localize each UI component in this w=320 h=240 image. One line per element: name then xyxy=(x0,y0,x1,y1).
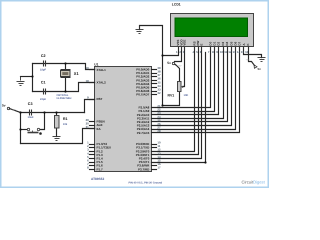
oscillator top rail wire xyxy=(33,64,95,70)
wire VDD pin to 5V xyxy=(175,47,182,62)
svg-text:22pF: 22pF xyxy=(40,69,46,72)
svg-text:16: 16 xyxy=(245,50,249,54)
svg-text:10K: 10K xyxy=(184,94,189,97)
svg-text:XTAL1: XTAL1 xyxy=(97,68,107,72)
LCD pin stubs xyxy=(179,47,249,51)
junction dot button left xyxy=(19,128,21,130)
oscillator bottom rail wire xyxy=(33,83,95,92)
junction dot button branch xyxy=(43,111,45,113)
pin EA stub xyxy=(90,128,95,130)
svg-text:PIN 40 VCC, PIN 20 Ground: PIN 40 VCC, PIN 20 Ground xyxy=(129,181,163,184)
wire P3.2 to LCD RS xyxy=(152,47,195,152)
svg-text:C1: C1 xyxy=(41,81,46,85)
svg-text:P2.7/A15: P2.7/A15 xyxy=(137,131,150,135)
ground symbol R1 xyxy=(53,137,61,141)
svg-text:12: 12 xyxy=(228,50,232,54)
LCD pin name labels xyxy=(176,38,250,45)
wire P2.1 to LCD D1 xyxy=(152,47,215,112)
push button reset xyxy=(27,128,39,132)
svg-text:10: 10 xyxy=(220,50,224,54)
LCD1 display body xyxy=(171,14,254,47)
push button knob dot xyxy=(39,132,42,135)
svg-text:P0.7/AD7: P0.7/AD7 xyxy=(136,93,149,97)
power symbol 5V reset xyxy=(2,104,16,112)
wire RV1 bottom to ground rail xyxy=(163,92,180,106)
svg-text:13: 13 xyxy=(233,50,237,54)
power symbol 5V LCD pin16 xyxy=(246,58,262,71)
potentiometer RV1 xyxy=(178,82,184,92)
svg-text:11: 11 xyxy=(224,50,227,54)
EA wire xyxy=(21,129,95,144)
left 5V rail wire down xyxy=(20,113,22,144)
crystal top lead wire xyxy=(65,64,67,70)
svg-text:P3.7/RD: P3.7/RD xyxy=(138,167,150,171)
junction dot osc ground xyxy=(31,75,33,77)
resistor R1 xyxy=(55,116,60,129)
wire P2.4 to LCD D4 xyxy=(152,47,228,122)
svg-text:22pF: 22pF xyxy=(40,98,46,101)
oscillator left rail wire xyxy=(32,64,34,92)
junction dot RV1 ground xyxy=(161,104,163,106)
svg-text:U1: U1 xyxy=(94,63,98,67)
pins P3.0,P3.1,P3.6,P3.7 stubs xyxy=(152,145,157,170)
R1 bottom lead wire xyxy=(56,129,58,137)
pin RST stub xyxy=(90,99,95,101)
svg-text:+5V: +5V xyxy=(246,58,250,61)
button right lead wire xyxy=(40,113,45,130)
svg-text:P1.7: P1.7 xyxy=(97,167,104,171)
page background xyxy=(0,0,269,188)
pins P0.0-P0.7 stubs xyxy=(152,70,157,95)
crystal X1 xyxy=(61,70,71,78)
wire P2.7 to LCD D7 xyxy=(152,47,240,133)
svg-text:11.0592 MHz: 11.0592 MHz xyxy=(56,97,72,100)
pin XTAL2 stub xyxy=(90,82,95,84)
MCU right pin numbers xyxy=(157,66,161,170)
MCU left pin names xyxy=(97,68,112,172)
junction dot P3.5 corner xyxy=(204,161,206,163)
svg-text:LCD1: LCD1 xyxy=(172,3,181,7)
svg-text:14: 14 xyxy=(237,50,241,54)
junction dot R1 top xyxy=(55,111,57,113)
wire P2.3 to LCD D3 xyxy=(152,47,224,119)
R1 top lead wire xyxy=(56,113,58,117)
wire 5V to RV1 top xyxy=(176,65,180,82)
power symbol 5V LCD VDD xyxy=(167,61,182,68)
svg-text:28: 28 xyxy=(157,129,161,133)
button left lead wire xyxy=(21,129,28,131)
pin PSEN stub xyxy=(90,121,95,123)
RST riser wire xyxy=(85,100,95,113)
wire LCD pin15 to ground xyxy=(244,47,262,58)
wire P2.0 to LCD D0 xyxy=(152,47,211,108)
svg-text:5v: 5v xyxy=(2,104,6,108)
wire P3.4 to LCD E xyxy=(152,47,202,159)
svg-text:5v: 5v xyxy=(258,67,262,71)
junction dot crystal top xyxy=(64,62,66,64)
junction dot crystal bottom xyxy=(64,90,66,92)
wire P3.5 branch xyxy=(152,53,206,163)
pin ALE stub xyxy=(90,125,95,127)
svg-text:XTAL2: XTAL2 xyxy=(97,81,107,85)
LCD pin numbers xyxy=(176,50,249,54)
svg-text:C3: C3 xyxy=(28,102,33,106)
svg-text:10uF: 10uF xyxy=(28,116,34,119)
svg-text:+5V: +5V xyxy=(12,109,16,112)
svg-text:10k: 10k xyxy=(63,123,68,126)
wire 5V to C3 rail xyxy=(10,109,21,113)
wire to oscillator ground xyxy=(21,76,33,78)
reset rail wire C3 to RST riser xyxy=(21,112,85,114)
svg-text:18: 18 xyxy=(86,79,90,83)
wire P2.6 to LCD D6 xyxy=(152,47,236,130)
svg-text:32: 32 xyxy=(157,91,161,95)
microcontroller U1 (AT89S52) body xyxy=(95,67,152,172)
wire LCD pin16 to 5V xyxy=(249,47,255,66)
ground symbol oscillator xyxy=(17,77,25,86)
svg-text:AT89S52: AT89S52 xyxy=(91,177,104,181)
svg-text:RST: RST xyxy=(97,97,103,101)
svg-text:E: E xyxy=(200,44,204,46)
svg-text:17: 17 xyxy=(157,166,161,170)
svg-text:31: 31 xyxy=(86,125,90,129)
crystal bottom lead wire xyxy=(65,78,67,92)
svg-text:15: 15 xyxy=(241,50,245,54)
svg-text:CircuitDigest: CircuitDigest xyxy=(242,179,266,184)
wire P3.3 to LCD RW xyxy=(152,47,199,155)
LCD VSS ground wire xyxy=(140,26,163,106)
MCU left pin numbers xyxy=(86,66,90,170)
wire VEE pin to RV1 wiper xyxy=(184,47,185,87)
page border frame xyxy=(1,1,269,188)
junction dot VSS rail xyxy=(161,54,163,56)
svg-text:19: 19 xyxy=(86,66,90,70)
capacitor C2 xyxy=(44,61,46,67)
wire P2.2 to LCD D2 xyxy=(152,47,219,115)
svg-text:VEE: VEE xyxy=(183,40,187,46)
svg-text:R1: R1 xyxy=(63,117,68,121)
pin XTAL1 stub xyxy=(90,69,95,71)
pins P1.0-P1.7 stubs xyxy=(90,145,95,170)
svg-text:5v: 5v xyxy=(167,61,171,65)
capacitor C3 xyxy=(30,110,32,116)
svg-text:C2: C2 xyxy=(41,54,46,58)
ground symbol LCD VSS xyxy=(136,26,144,34)
ground symbol LCD pin15 xyxy=(258,58,266,62)
svg-text:+5V: +5V xyxy=(178,65,182,68)
svg-text:X1: X1 xyxy=(74,71,80,76)
wire VSS pin to ground rail xyxy=(163,47,179,56)
wire P2.5 to LCD D5 xyxy=(152,47,232,126)
capacitor C1 xyxy=(44,89,46,95)
junction dot C3 rail at 5V xyxy=(19,111,21,113)
svg-text:RV1: RV1 xyxy=(168,93,175,97)
MCU right pin names xyxy=(136,68,150,172)
